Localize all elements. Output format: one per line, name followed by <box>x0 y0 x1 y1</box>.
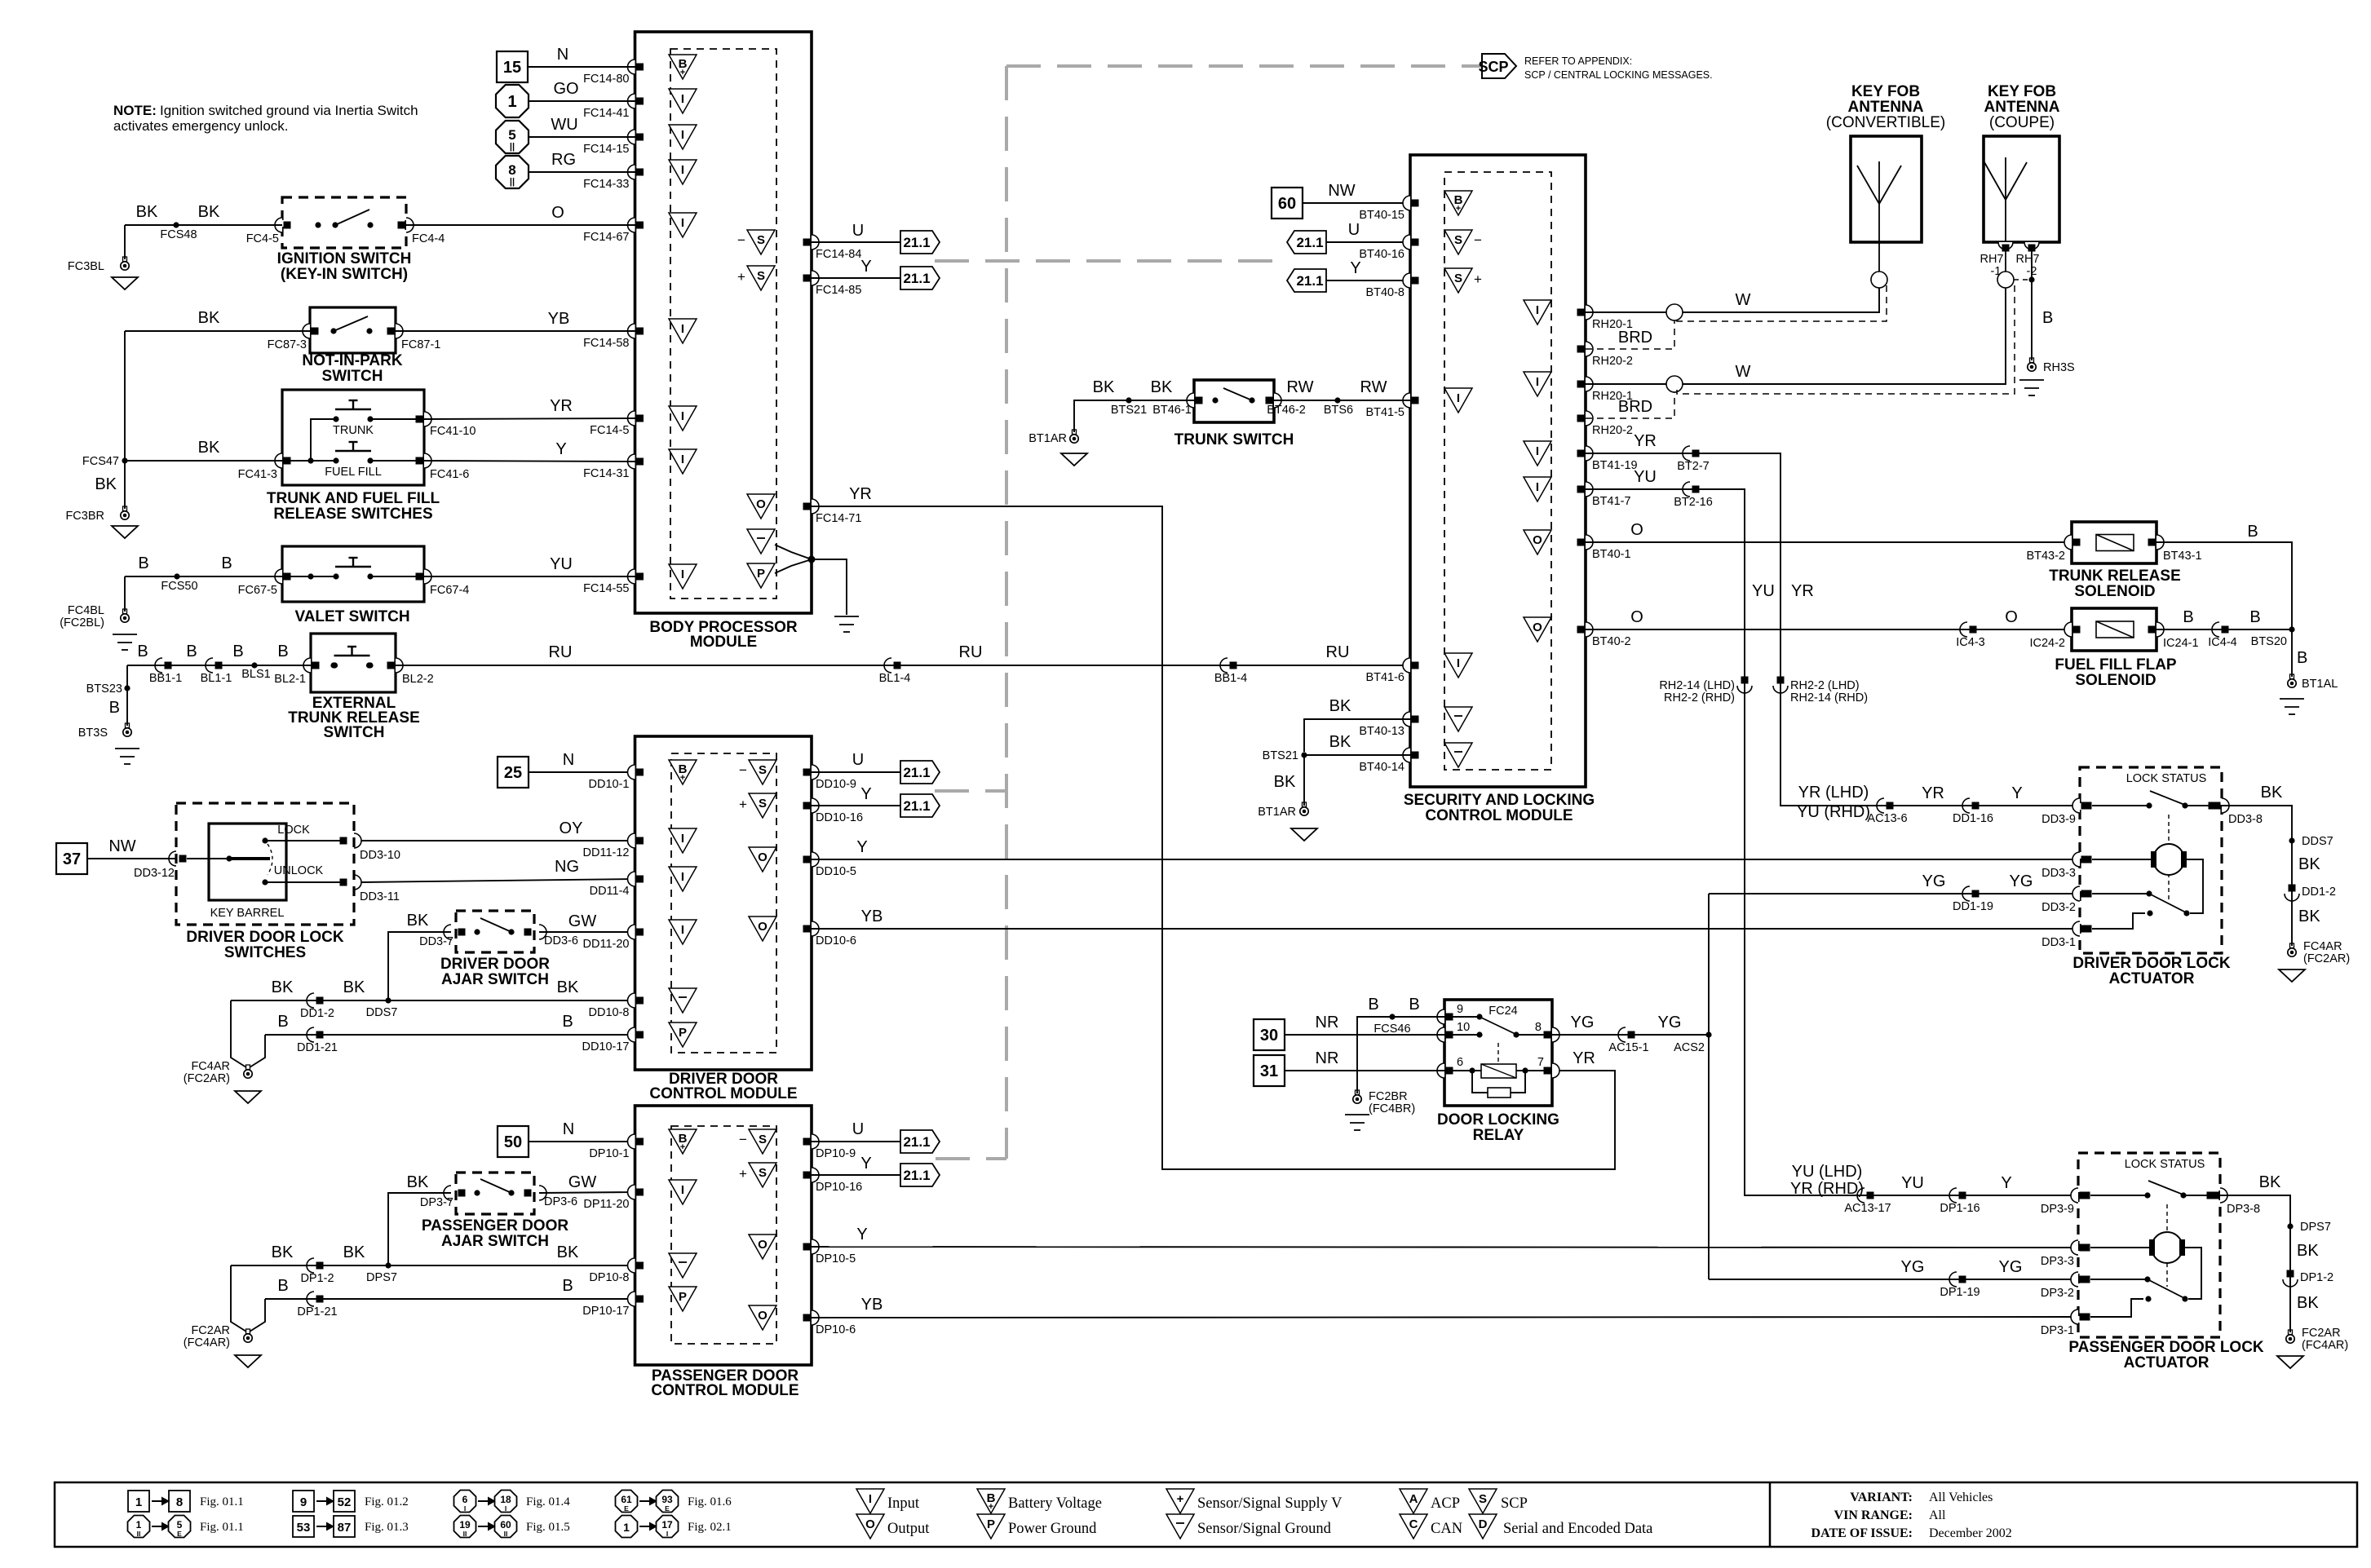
legend sensor ground symbol <box>1166 1514 1194 1539</box>
svg-text:RH7: RH7 <box>1980 253 2003 266</box>
not-in-park switch <box>310 307 396 353</box>
coax connector coupe <box>2005 249 2006 272</box>
svg-text:I: I <box>464 1504 466 1513</box>
BPM power ground triangle <box>747 563 775 588</box>
BPM SCP- pin FC14-84 <box>747 230 775 254</box>
svg-text:FC14-67: FC14-67 <box>583 231 629 244</box>
svg-text:60: 60 <box>500 1519 511 1530</box>
svg-text:RW: RW <box>1287 378 1314 396</box>
passenger actuator pin DP3-2 <box>2071 1272 2078 1287</box>
svg-text:DP3-6: DP3-6 <box>544 1195 577 1208</box>
SLCM signal ground pin BT40-13 <box>1403 712 1410 727</box>
svg-text:BT40-15: BT40-15 <box>1359 209 1404 222</box>
SCP pointer box <box>1482 54 1516 78</box>
wire RG to FC14-33 <box>529 171 635 173</box>
SLCM input pin BT41-6 <box>1403 658 1410 673</box>
svg-text:NOTE:: NOTE: <box>113 103 157 118</box>
wire B relay pin 9 to FC2BR ground <box>1357 1017 1444 1093</box>
wire YG relay pin 8 to ACS2 <box>1552 1034 1709 1036</box>
wire BK trunk switch to BT1AR <box>1074 400 1194 432</box>
wire BK to not-in-park switch <box>125 330 310 332</box>
wire YG to driver actuator DD3-2 <box>1709 893 2080 894</box>
connector BB1-1 <box>155 658 162 673</box>
svg-text:Fig. 01.5: Fig. 01.5 <box>526 1521 570 1534</box>
DDCM input pin DD11-20 <box>628 925 635 939</box>
legend fig 01.1 squares <box>128 1491 149 1512</box>
svg-text:B: B <box>562 1277 573 1295</box>
svg-text:IC24-1: IC24-1 <box>2163 637 2199 650</box>
wire NR 30 to relay pin 10 <box>1285 1034 1444 1036</box>
passenger actuator pin DP3-9 <box>2071 1188 2078 1203</box>
pointer 21.1 U out <box>900 231 940 254</box>
connector box 31 <box>1254 1055 1285 1086</box>
svg-text:(FC2AR): (FC2AR) <box>2303 952 2350 965</box>
svg-text:YB: YB <box>861 1296 883 1314</box>
svg-text:I: I <box>1536 303 1539 317</box>
wire YB not-in-park to BPM FC14-58 <box>396 330 635 332</box>
wire B passenger door to PDCM DP10-17 <box>265 1298 635 1300</box>
svg-text:1: 1 <box>136 1519 142 1530</box>
svg-text:BT40-1: BT40-1 <box>1592 548 1631 561</box>
splice ACS2 <box>1705 1031 1711 1037</box>
connector box 50 <box>498 1126 529 1157</box>
connector DP1-19 <box>1949 1272 1957 1287</box>
svg-text:Ignition switched ground via I: Ignition switched ground via Inertia Swi… <box>160 103 418 118</box>
svg-text:FC4-4: FC4-4 <box>412 232 445 245</box>
svg-text:DD11-20: DD11-20 <box>583 938 630 951</box>
valet switch box <box>282 546 424 602</box>
svg-text:I: I <box>681 216 684 230</box>
legend fig 01.1 octagons <box>128 1516 150 1538</box>
svg-text:GW: GW <box>568 1173 597 1191</box>
splice FCS46 <box>1389 1014 1395 1019</box>
svg-text:B: B <box>232 643 243 660</box>
svg-text:93: 93 <box>661 1494 673 1505</box>
BPM input pin FC14-55 <box>628 569 635 584</box>
svg-text:DP1-2: DP1-2 <box>2300 1271 2333 1284</box>
svg-text:S: S <box>759 763 767 777</box>
svg-text:IC24-2: IC24-2 <box>2029 637 2065 650</box>
wire N to PDCM DP10-1 <box>528 1141 635 1142</box>
ground stud BT1AR trunk switch <box>1073 430 1077 435</box>
ground stud FC2BR <box>1356 1090 1360 1095</box>
pointer 21.1 driver U <box>900 761 940 784</box>
svg-text:DP1-2: DP1-2 <box>300 1272 334 1285</box>
svg-text:Y: Y <box>860 1155 871 1173</box>
svg-text:DP1-19: DP1-19 <box>1940 1286 1980 1299</box>
relay pin 9 <box>1437 1009 1444 1024</box>
BPM battery-voltage pin FC14-80 <box>628 60 635 74</box>
svg-text:RH2-14 (RHD): RH2-14 (RHD) <box>1790 691 1868 704</box>
svg-text:FCS46: FCS46 <box>1373 1023 1410 1036</box>
svg-text:DRIVER DOOR LOCK: DRIVER DOOR LOCK <box>186 929 343 946</box>
svg-text:RU: RU <box>549 643 573 661</box>
wire BK passenger door to PDCM DP10-8 <box>231 1265 635 1266</box>
svg-text:BK: BK <box>343 1243 365 1261</box>
svg-text:Y: Y <box>856 838 867 856</box>
BPM output pin FC14-71 <box>747 494 775 519</box>
splice BTS20 <box>2289 626 2294 632</box>
svg-text:B: B <box>1409 996 1419 1014</box>
PDCM SCP+ pin DP10-16 <box>749 1163 776 1187</box>
svg-text:50: 50 <box>504 1133 522 1151</box>
svg-text:O: O <box>756 497 766 511</box>
BPM ground wires to earth <box>775 545 812 559</box>
svg-text:BL2-2: BL2-2 <box>402 673 434 686</box>
connector AC13-6 <box>1877 798 1884 813</box>
pointer 21.1 passenger Y <box>900 1164 940 1186</box>
wire GO to FC14-41 <box>529 100 635 102</box>
svg-text:DD10-5: DD10-5 <box>816 865 856 878</box>
svg-text:Output: Output <box>887 1521 930 1537</box>
svg-text:DD11-12: DD11-12 <box>583 846 630 859</box>
svg-text:II: II <box>463 1530 467 1538</box>
wire Y BPM FC14-85 to pointer 21.1 <box>812 277 900 279</box>
wire O SLCM BT40-1 to trunk release solenoid <box>1586 541 2072 543</box>
svg-text:I: I <box>681 923 684 937</box>
connector box 30 <box>1254 1019 1285 1050</box>
svg-text:FC14-33: FC14-33 <box>583 178 629 191</box>
svg-text:+: + <box>737 269 745 285</box>
svg-text:Input: Input <box>887 1495 920 1512</box>
svg-text:BK: BK <box>136 203 158 221</box>
svg-text:(CONVERTIBLE): (CONVERTIBLE) <box>1826 114 1945 131</box>
wire Y fuel fill to BPM FC14-31 <box>424 461 635 462</box>
svg-text:Y: Y <box>860 785 871 803</box>
svg-text:+: + <box>1474 272 1482 287</box>
svg-text:BT1AL: BT1AL <box>2302 678 2338 691</box>
svg-text:FC2AR: FC2AR <box>2302 1327 2341 1340</box>
wire U BPM FC14-84 to pointer 21.1 <box>812 241 900 243</box>
svg-text:FC14-41: FC14-41 <box>583 107 629 120</box>
svg-text:YG: YG <box>1922 872 1946 890</box>
svg-text:B: B <box>277 643 288 660</box>
svg-text:B: B <box>186 643 197 660</box>
ground BT1AL bars <box>2280 698 2304 700</box>
svg-text:S: S <box>757 233 765 247</box>
BPM sensor/signal ground triangle <box>747 529 775 554</box>
svg-text:DP10-1: DP10-1 <box>589 1147 629 1160</box>
wire YU valet to BPM FC14-55 <box>424 576 635 577</box>
wire B valet to ground <box>125 576 282 577</box>
svg-text:Sensor/Signal Supply V: Sensor/Signal Supply V <box>1197 1495 1343 1512</box>
splice BTS21 trunk switch <box>1126 397 1131 403</box>
svg-text:LOCK STATUS: LOCK STATUS <box>2125 1158 2205 1171</box>
BPM SCP+ pin FC14-85 <box>747 266 775 290</box>
ground stud FC4BL <box>124 576 126 612</box>
svg-text:VALET SWITCH: VALET SWITCH <box>294 608 409 625</box>
svg-text:SCP: SCP <box>1501 1495 1528 1512</box>
svg-text:BK: BK <box>407 1173 429 1191</box>
driver door lock actuator dashed box <box>2080 767 2222 953</box>
svg-text:BK: BK <box>2298 855 2320 873</box>
svg-text:RH2-2 (RHD): RH2-2 (RHD) <box>1664 691 1735 704</box>
svg-text:BK: BK <box>1329 733 1351 751</box>
svg-text:YU: YU <box>1634 468 1657 486</box>
svg-text:30: 30 <box>1260 1027 1278 1045</box>
legend power ground symbol <box>977 1514 1005 1539</box>
svg-text:BT41-19: BT41-19 <box>1592 459 1638 472</box>
svg-text:RH3S: RH3S <box>2043 361 2075 374</box>
svg-text:YR (RHD): YR (RHD) <box>1790 1180 1864 1198</box>
svg-text:TRUNK: TRUNK <box>333 424 374 437</box>
svg-text:BK: BK <box>2261 784 2283 802</box>
ground FC3BL triangle <box>112 277 138 289</box>
pointer 21.1 driver Y <box>900 794 940 817</box>
svg-text:DP11-20: DP11-20 <box>583 1198 629 1211</box>
key barrel wiper <box>226 855 232 861</box>
connector RH2 on YR drop <box>1777 677 1785 684</box>
svg-text:21.1: 21.1 <box>903 271 930 286</box>
svg-text:BK: BK <box>1093 378 1115 396</box>
DDCM battery pin DD10-1 <box>628 765 635 780</box>
svg-text:Power Ground: Power Ground <box>1008 1521 1097 1537</box>
ground stud FC4AR right <box>2290 943 2294 948</box>
ground stud FC2AR right <box>2289 1330 2293 1335</box>
svg-text:N: N <box>563 1120 574 1138</box>
DDCM signal ground pin DD10-8 <box>628 993 635 1008</box>
svg-text:BK: BK <box>2297 1242 2319 1260</box>
svg-text:BT1AR: BT1AR <box>1258 806 1296 819</box>
svg-text:AJAR SWITCH: AJAR SWITCH <box>441 971 549 988</box>
ground FC2AR triangle <box>235 1355 261 1367</box>
svg-text:||: || <box>510 177 515 187</box>
svg-text:BT41-6: BT41-6 <box>1365 671 1404 684</box>
svg-text:BL1-4: BL1-4 <box>879 672 911 685</box>
svg-text:DRIVER DOOR: DRIVER DOOR <box>440 956 550 973</box>
svg-text:FC87-3: FC87-3 <box>268 338 307 351</box>
svg-text:ACTUATOR: ACTUATOR <box>2124 1354 2210 1371</box>
splice DDS7 right <box>2289 837 2294 843</box>
svg-text:FC14-15: FC14-15 <box>583 143 629 156</box>
svg-text:B: B <box>109 699 120 717</box>
driver actuator pin DD3-2 <box>2072 886 2080 901</box>
svg-text:D: D <box>1479 1517 1488 1531</box>
connector BT2-16 <box>1683 482 1690 497</box>
svg-text:BRD: BRD <box>1618 398 1652 416</box>
svg-text:DPS7: DPS7 <box>2300 1221 2331 1234</box>
svg-text:+: + <box>1456 204 1461 214</box>
svg-text:YR: YR <box>1922 784 1944 802</box>
svg-text:10: 10 <box>1457 1021 1470 1034</box>
BPM input pin FC14-31 <box>628 454 635 469</box>
ground stud BT3S <box>126 665 128 726</box>
svg-text:RH20-2: RH20-2 <box>1592 424 1633 437</box>
svg-text:Fig. 01.2: Fig. 01.2 <box>365 1495 409 1508</box>
svg-text:Fig. 01.1: Fig. 01.1 <box>200 1521 244 1534</box>
ground BT1AR triangle at SLCM <box>1291 828 1317 841</box>
PDCM SCP- pin DP10-9 <box>749 1129 776 1154</box>
svg-text:FC2BR: FC2BR <box>1369 1090 1408 1103</box>
passenger actuator pin DP3-8 <box>2207 1192 2214 1199</box>
svg-text:B: B <box>2042 309 2053 327</box>
wire YB PDCM DP10-6 to passenger lock actuator DP3-1 <box>812 1317 2078 1318</box>
svg-text:SOLENOID: SOLENOID <box>2075 672 2156 689</box>
splice FCS50 <box>174 573 179 579</box>
wire vertical left bus FCS47 <box>124 331 126 509</box>
svg-text:FCS48: FCS48 <box>160 228 197 241</box>
wire Y PDCM to pointer 21.1 <box>812 1174 900 1176</box>
svg-text:+: + <box>680 68 685 77</box>
svg-text:Y: Y <box>555 440 566 458</box>
svg-text:O: O <box>1533 621 1542 634</box>
svg-text:+: + <box>680 773 685 783</box>
svg-text:+: + <box>680 1142 685 1152</box>
svg-text:YR: YR <box>1573 1049 1595 1067</box>
BPM input pin FC14-15 <box>628 130 635 144</box>
shield link to B wire <box>2014 279 2032 280</box>
connector IC4-4 <box>2212 622 2219 637</box>
svg-text:DD3-9: DD3-9 <box>2041 813 2076 826</box>
coupe antenna pin RH7-1 <box>1998 242 2013 250</box>
svg-text:21.1: 21.1 <box>903 798 930 814</box>
svg-text:||: || <box>510 142 515 152</box>
svg-text:BT3S: BT3S <box>78 727 108 740</box>
wire BK SLCM BT40-13 to BT1AR <box>1304 719 1410 752</box>
SCP serial data bus (gray dashed) <box>1006 64 1484 68</box>
SLCM input pin RH20-1 second <box>1524 372 1551 396</box>
svg-text:I: I <box>1536 444 1539 458</box>
connector BT2-7 <box>1683 446 1690 461</box>
svg-text:BT40-8: BT40-8 <box>1365 286 1404 299</box>
svg-text:I: I <box>1536 480 1539 494</box>
svg-text:DD3-3: DD3-3 <box>2041 867 2076 880</box>
splice BTS6 <box>1334 397 1340 403</box>
driver actuator pin DD3-1 <box>2072 921 2080 936</box>
svg-text:5: 5 <box>177 1519 183 1530</box>
svg-text:YR: YR <box>1791 582 1814 600</box>
wire Y to SLCM BT40-8 <box>1326 280 1410 281</box>
SLCM SCP+ pin BT40-8 <box>1403 273 1410 288</box>
svg-text:YG: YG <box>1901 1258 1925 1276</box>
svg-text:Fig. 01.4: Fig. 01.4 <box>526 1495 570 1508</box>
svg-text:RH2-14 (LHD): RH2-14 (LHD) <box>1659 679 1735 692</box>
connector DD1-2 <box>307 993 314 1008</box>
svg-text:RU: RU <box>959 643 983 661</box>
svg-text:17: 17 <box>661 1519 673 1530</box>
svg-text:FC14-31: FC14-31 <box>583 467 629 480</box>
svg-text:Y: Y <box>856 1226 867 1243</box>
svg-text:CAN: CAN <box>1431 1521 1462 1537</box>
wire O SLCM BT40-2 to fuel fill flap solenoid <box>1586 629 2072 630</box>
svg-text:DD10-8: DD10-8 <box>589 1006 630 1019</box>
SLCM signal ground pin BT40-14 <box>1403 748 1410 762</box>
legend CAN symbol <box>1400 1514 1427 1539</box>
svg-text:FC14-71: FC14-71 <box>816 512 861 525</box>
svg-text:ANTENNA: ANTENNA <box>1848 99 1924 116</box>
svg-text:BK: BK <box>343 978 365 996</box>
SLCM input pin BT41-19 <box>1524 441 1551 466</box>
trunk switch box <box>1194 380 1274 422</box>
svg-text:BT43-1: BT43-1 <box>2163 550 2202 563</box>
wire YR SLCM BT41-19 to driver actuator DD3-9 <box>1586 453 1879 806</box>
legend output symbol <box>856 1514 884 1539</box>
svg-text:GW: GW <box>568 912 597 930</box>
svg-text:I: I <box>1457 656 1460 670</box>
svg-text:DD1-16: DD1-16 <box>1953 812 1993 825</box>
svg-text:−: − <box>739 1132 747 1147</box>
connector DP1-16 <box>1949 1188 1957 1203</box>
svg-text:O: O <box>758 850 767 864</box>
svg-text:(FC4AR): (FC4AR) <box>184 1336 230 1349</box>
svg-text:W: W <box>1736 363 1751 381</box>
svg-text:ACS2: ACS2 <box>1674 1041 1705 1054</box>
wire U to SLCM BT40-16 <box>1326 241 1410 243</box>
svg-text:1: 1 <box>623 1521 630 1534</box>
connector DD1-19 <box>1962 886 1970 901</box>
svg-text:O: O <box>758 1238 767 1252</box>
passenger actuator pin DP3-3 <box>2071 1240 2078 1255</box>
passenger door ajar switch dashed box <box>456 1173 534 1214</box>
svg-text:I: I <box>681 92 684 106</box>
trunk and fuel fill release switches box <box>282 390 424 485</box>
DDCM SCP- pin DD10-9 <box>749 760 776 784</box>
svg-text:FC4AR: FC4AR <box>191 1060 230 1073</box>
PDCM input pin DP11-20 <box>628 1185 635 1199</box>
ground FC2BR bars <box>1345 1114 1369 1115</box>
passenger lock status switch <box>2090 1195 2148 1196</box>
svg-text:YR: YR <box>550 397 573 415</box>
svg-text:O: O <box>2005 608 2018 626</box>
svg-text:RG: RG <box>551 151 576 169</box>
svg-text:18: 18 <box>500 1494 511 1505</box>
svg-text:DD3-6: DD3-6 <box>544 934 578 947</box>
svg-text:YB: YB <box>861 908 883 925</box>
external trunk release switch box <box>311 634 396 692</box>
svg-text:BK: BK <box>1151 378 1173 396</box>
fuel fill pushbutton <box>333 457 338 463</box>
svg-text:TRUNK AND FUEL FILL: TRUNK AND FUEL FILL <box>267 490 440 507</box>
svg-text:(FC4AR): (FC4AR) <box>2302 1339 2348 1352</box>
ground stud FC2AR passenger door <box>231 1265 246 1332</box>
svg-text:I: I <box>505 1504 506 1513</box>
wire BK SLCM BT40-14 to BT1AR <box>1304 754 1410 756</box>
svg-text:RW: RW <box>1360 378 1387 396</box>
svg-text:21.1: 21.1 <box>903 1134 930 1150</box>
svg-text:B: B <box>277 1277 288 1295</box>
svg-text:Y: Y <box>860 258 871 276</box>
pointer 21.1 U in <box>1287 231 1326 254</box>
ground BT1AR triangle trunk switch <box>1061 453 1087 466</box>
svg-text:BT46-1: BT46-1 <box>1152 404 1192 417</box>
svg-text:DD10-1: DD10-1 <box>589 778 630 791</box>
passenger door lock actuator dashed box <box>2078 1153 2220 1337</box>
svg-text:FC14-84: FC14-84 <box>816 248 861 261</box>
wire O ignition to BPM FC14-67 <box>406 224 635 226</box>
svg-text:AC15-1: AC15-1 <box>1608 1041 1648 1054</box>
svg-text:37: 37 <box>63 850 81 868</box>
svg-text:OY: OY <box>560 819 583 837</box>
svg-text:DDS7: DDS7 <box>2302 835 2333 848</box>
svg-text:DD1-2: DD1-2 <box>300 1007 334 1020</box>
svg-text:DD3-1: DD3-1 <box>2041 936 2076 949</box>
svg-text:FC3BR: FC3BR <box>65 510 104 523</box>
svg-text:DD10-17: DD10-17 <box>582 1040 629 1053</box>
SLCM output pin BT40-2 <box>1524 617 1551 642</box>
svg-text:O: O <box>1630 608 1643 626</box>
driver door lock switches dashed box <box>176 803 354 925</box>
svg-text:DPS7: DPS7 <box>366 1271 397 1284</box>
svg-text:BLS1: BLS1 <box>241 668 270 681</box>
svg-text:I: I <box>869 1492 872 1506</box>
svg-text:BK: BK <box>1329 697 1351 715</box>
svg-text:BL2-1: BL2-1 <box>274 673 306 686</box>
svg-text:DD3-7: DD3-7 <box>419 935 453 948</box>
wire B driver door to DDCM DD10-17 <box>265 1034 635 1036</box>
svg-text:+: + <box>1177 1492 1184 1506</box>
wire NW to SLCM BT40-15 <box>1303 202 1410 204</box>
svg-text:1: 1 <box>135 1495 142 1509</box>
